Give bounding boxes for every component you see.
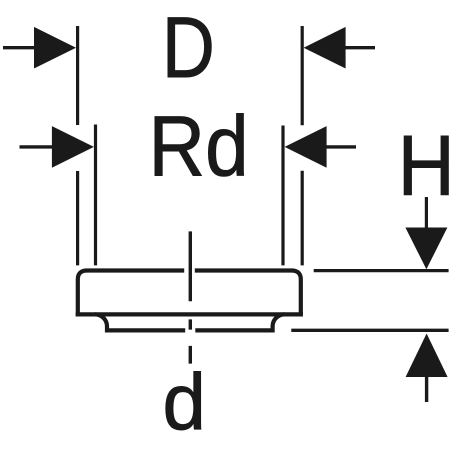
dimension Rd tail line left [20,145,54,148]
dimension H leader line upper [425,197,428,229]
dimension H arrowhead up [406,334,448,378]
dimension Rd arrowhead left [52,126,94,168]
svg-text:D: D [162,0,215,95]
cap lip outline (with centerline gap) [95,314,285,330]
dimension D tail line left [3,46,35,49]
extension line Rd left [94,125,97,266]
cap body outline (left edge, top edge with centerline gap, right edge) [78,271,301,317]
dimension Rd arrowhead right [285,126,327,168]
svg-text:Rd: Rd [149,100,249,195]
extension line H top [314,269,449,272]
extension line H bottom [291,329,448,332]
dimension H arrowhead down [405,228,447,270]
dimension D arrowhead left [34,27,76,69]
extension line D left [76,26,79,265]
cap body bottom line [76,312,303,316]
extension line Rd right [281,126,284,266]
center line (dash-dot axis) [189,231,192,363]
dimension D arrowhead right [304,27,346,69]
dimension H leader line lower [425,377,428,402]
dimension D tail line right [345,46,375,49]
svg-text:d: d [163,357,206,447]
extension line D right [301,26,304,265]
svg-text:H: H [398,119,450,213]
dimension Rd tail line right [326,145,356,148]
